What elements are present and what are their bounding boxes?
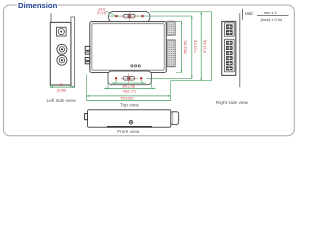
bracket plate (left view) bbox=[71, 17, 75, 87]
ext line 87 bottom bbox=[171, 80, 212, 82]
bracket plate (right view) bbox=[239, 13, 241, 87]
round jack 2 bbox=[57, 55, 67, 65]
svg-text:Dimension: Dimension bbox=[18, 1, 58, 10]
dim 30 line bbox=[111, 82, 146, 84]
tab hole left bbox=[115, 15, 117, 17]
dim 22 line bbox=[50, 86, 74, 88]
dim 22 extension lines bbox=[50, 86, 74, 88]
tab hole right bbox=[141, 15, 143, 17]
ext lines for 65 bbox=[176, 22, 182, 73]
dim 87 vline bbox=[200, 12, 202, 81]
bottom tab hole right bbox=[140, 77, 142, 79]
svg-text:22: 22 bbox=[59, 83, 63, 87]
svg-text:Front view: Front view bbox=[117, 129, 140, 135]
terminal block 2 (right view) bbox=[225, 39, 235, 72]
svg-text:Unit:: Unit: bbox=[245, 11, 254, 16]
svg-text:Top view: Top view bbox=[120, 102, 139, 108]
protrusion inner line bbox=[172, 112, 174, 124]
front body bbox=[88, 110, 171, 128]
bracket vline bbox=[211, 12, 213, 81]
dim 77 vline bbox=[191, 16, 193, 78]
dim 65 vline bbox=[181, 22, 183, 73]
svg-text:(inch) ± 0.04: (inch) ± 0.04 bbox=[260, 17, 282, 22]
bottom mounting tab bbox=[108, 71, 151, 85]
ext line 77 bottom bbox=[147, 77, 193, 79]
svg-text:Left side view: Left side view bbox=[46, 98, 76, 104]
svg-text:(0.86): (0.86) bbox=[57, 89, 66, 93]
svg-text:30(1.18): 30(1.18) bbox=[122, 84, 135, 88]
ext line 87 top bbox=[150, 11, 212, 13]
terminal block top (top view) bbox=[167, 21, 175, 35]
outer rounded frame bbox=[3, 5, 294, 136]
DC jack square bbox=[57, 27, 67, 36]
front thick bottom segment bbox=[107, 126, 152, 128]
svg-text:Right side view: Right side view bbox=[216, 100, 249, 106]
top view inner rect bbox=[92, 24, 164, 70]
svg-text:97(3.81): 97(3.81) bbox=[120, 97, 133, 101]
round jack 1 bbox=[57, 44, 67, 54]
svg-text:65(2.56): 65(2.56) bbox=[183, 40, 187, 53]
svg-text:87(3.42): 87(3.42) bbox=[203, 40, 207, 53]
hole centerline bbox=[108, 15, 192, 17]
top view outer rect bbox=[90, 22, 167, 73]
bottom tab hole left bbox=[115, 77, 117, 79]
enclosure box (left view) bbox=[50, 22, 71, 85]
dim 97 upper line bbox=[87, 95, 171, 97]
dim 30 ext lines bbox=[116, 80, 141, 84]
enclosure box (right view) bbox=[222, 21, 236, 75]
svg-text:mm ± 1: mm ± 1 bbox=[264, 10, 277, 15]
front button circle bbox=[129, 121, 133, 125]
dim 45 line bbox=[104, 87, 155, 89]
bottom tab slot bbox=[123, 77, 135, 81]
left bump jack2 bbox=[85, 58, 90, 61]
terminal block 1 (right view) bbox=[225, 23, 235, 36]
dia 3.5 leader bbox=[106, 11, 115, 15]
plate top whisker left bbox=[50, 13, 52, 23]
dim 97 ext lines bbox=[87, 74, 171, 101]
left bump jack1 bbox=[85, 46, 90, 50]
front right protrusion bbox=[171, 112, 179, 125]
unit divider line bbox=[242, 9, 244, 20]
dim 97 lower line bbox=[87, 99, 171, 101]
tab slot bbox=[123, 14, 135, 18]
dim 45 ext lines bbox=[108, 82, 151, 89]
front left jack bump bbox=[85, 114, 88, 120]
terminal block bottom (top view) bbox=[167, 40, 175, 67]
three indicator dots bbox=[131, 65, 133, 67]
svg-text:77(3.03): 77(3.03) bbox=[193, 40, 197, 53]
frame gap for title bbox=[17, 3, 58, 9]
top mounting tab bbox=[109, 12, 150, 23]
svg-text:45(1.77): 45(1.77) bbox=[123, 89, 136, 93]
svg-text:(0.14): (0.14) bbox=[97, 11, 106, 15]
